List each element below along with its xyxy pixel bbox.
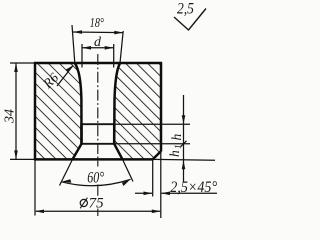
svg-text:d: d [94, 35, 102, 50]
svg-text:2,5×45°: 2,5×45° [170, 179, 217, 196]
svg-text:75: 75 [89, 196, 105, 212]
svg-text:34: 34 [3, 109, 18, 124]
svg-text:60°: 60° [87, 169, 104, 187]
svg-text:1: 1 [173, 145, 183, 150]
svg-text:h: h [169, 134, 184, 141]
svg-text:2,5: 2,5 [177, 1, 194, 18]
svg-text:h: h [167, 150, 182, 157]
svg-text:18°: 18° [90, 14, 104, 30]
